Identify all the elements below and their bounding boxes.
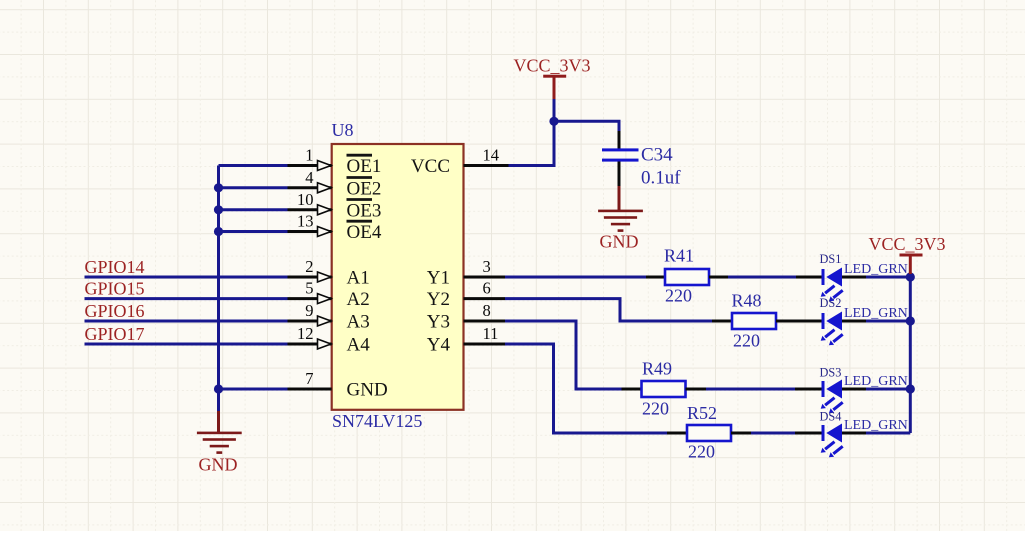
- resistor R52 body: [687, 425, 731, 441]
- ground symbol left stem: [217, 411, 220, 433]
- svg-text:GPIO17: GPIO17: [85, 324, 145, 344]
- power symbol VCC_3V3 right bar: [900, 254, 923, 257]
- junction bus pin13: [214, 227, 223, 236]
- wire GPIO17 to A4: [85, 343, 288, 346]
- resistor R52 right pin: [731, 432, 751, 435]
- svg-text:LED_GRN: LED_GRN: [844, 418, 908, 433]
- pin 5 A2: [288, 279, 370, 311]
- svg-text:DS4: DS4: [820, 410, 842, 424]
- svg-text:OE4: OE4: [347, 222, 382, 243]
- svg-text:VCC_3V3: VCC_3V3: [869, 234, 946, 254]
- svg-text:GND: GND: [600, 232, 639, 252]
- svg-text:220: 220: [665, 286, 692, 306]
- wire pin13 to bus: [219, 230, 288, 233]
- pin 11 Y4: [427, 324, 505, 356]
- junction bus pin10: [214, 205, 223, 214]
- wire DS2 to rail: [866, 320, 910, 323]
- wire Y3 to R49: [505, 321, 622, 389]
- LED DS4: [821, 424, 843, 458]
- svg-text:C34: C34: [641, 145, 673, 166]
- svg-text:11: 11: [483, 324, 499, 343]
- LED DS1: [821, 268, 843, 302]
- wire DS1 to rail: [866, 276, 910, 279]
- svg-text:Y3: Y3: [427, 312, 450, 333]
- wire VCC node to C34: [554, 121, 619, 133]
- pin 10 OE3: [288, 190, 382, 222]
- wire Y2 to R48: [505, 299, 712, 321]
- IC U8 body: [332, 144, 464, 410]
- resistor R41 right pin: [709, 276, 728, 279]
- svg-text:220: 220: [733, 331, 760, 351]
- svg-text:12: 12: [297, 324, 314, 343]
- wire pin4 to bus: [219, 186, 288, 189]
- power symbol VCC_3V3 right stem: [909, 255, 912, 274]
- pin 4 OE2: [288, 168, 382, 200]
- power symbol VCC_3V3 top bar: [543, 75, 566, 78]
- svg-text:LED_GRN: LED_GRN: [844, 262, 908, 277]
- pin 2 A1: [288, 257, 370, 289]
- svg-text:U8: U8: [332, 120, 354, 140]
- ground symbol left: [197, 432, 242, 454]
- svg-text:DS2: DS2: [820, 296, 842, 310]
- LED DS4 left pin: [795, 432, 822, 435]
- LED DS2: [821, 312, 843, 346]
- LED DS1 right pin: [842, 276, 866, 279]
- wire GPIO14 to A1: [85, 276, 288, 279]
- wire pin1 to bus: [219, 164, 288, 167]
- svg-text:1: 1: [305, 146, 313, 165]
- svg-text:2: 2: [305, 257, 313, 276]
- LED DS4 right pin: [842, 432, 866, 435]
- svg-text:GND: GND: [347, 380, 388, 401]
- resistor R41 body: [665, 269, 709, 285]
- svg-text:GPIO16: GPIO16: [85, 301, 145, 321]
- resistor R52 left pin: [667, 432, 687, 435]
- junction bus GND: [214, 384, 223, 393]
- wire R52 to DS4: [751, 432, 795, 435]
- svg-text:SN74LV125: SN74LV125: [332, 411, 422, 431]
- resistor R48 right pin: [776, 320, 796, 323]
- svg-text:LED_GRN: LED_GRN: [844, 374, 908, 389]
- svg-text:GPIO15: GPIO15: [85, 279, 145, 299]
- svg-text:GND: GND: [199, 455, 238, 475]
- svg-text:6: 6: [483, 279, 491, 298]
- wire Y4 to R52: [505, 344, 667, 433]
- svg-text:3: 3: [483, 257, 491, 276]
- svg-text:220: 220: [642, 399, 669, 419]
- pin 14 VCC: [411, 146, 509, 178]
- pin 1 OE1: [288, 146, 382, 178]
- pin 3 Y1: [427, 257, 505, 289]
- svg-text:9: 9: [305, 301, 313, 320]
- svg-text:VCC_3V3: VCC_3V3: [514, 56, 591, 76]
- ground symbol cap: [598, 210, 643, 232]
- LED DS2 left pin: [796, 320, 822, 323]
- pin 13 OE4: [288, 212, 382, 244]
- svg-text:4: 4: [305, 168, 313, 187]
- resistor R49 left pin: [622, 388, 642, 391]
- capacitor C34 top pin: [618, 131, 621, 149]
- svg-text:R52: R52: [687, 403, 717, 423]
- svg-text:Y1: Y1: [427, 268, 450, 289]
- svg-text:14: 14: [483, 146, 500, 165]
- resistor R49 body: [642, 381, 686, 397]
- svg-text:DS3: DS3: [820, 366, 842, 380]
- resistor R49 right pin: [686, 388, 707, 391]
- junction VCC node: [549, 117, 558, 126]
- svg-text:VCC: VCC: [411, 156, 450, 177]
- svg-text:GPIO14: GPIO14: [85, 257, 145, 277]
- capacitor C34 plates: [602, 148, 639, 161]
- power symbol VCC_3V3 top stem: [553, 76, 556, 99]
- LED DS1 left pin: [796, 276, 822, 279]
- LED DS3 left pin: [795, 388, 822, 391]
- svg-text:A3: A3: [347, 312, 370, 333]
- resistor R48 body: [732, 313, 776, 329]
- junction rail DS1: [906, 272, 915, 281]
- pin 8 Y3: [427, 301, 505, 333]
- wire VCC pin14 to power: [509, 99, 555, 166]
- capacitor C34 bottom pin: [618, 162, 621, 187]
- svg-text:OE2: OE2: [347, 178, 382, 199]
- wire VCC rail right: [909, 277, 912, 433]
- svg-text:R49: R49: [642, 359, 672, 379]
- wire Y1 to R41: [505, 276, 646, 279]
- junction bus pin4: [214, 183, 223, 192]
- resistor R41 left pin: [646, 276, 665, 279]
- junction rail DS3: [906, 384, 915, 393]
- svg-text:DS1: DS1: [820, 252, 842, 266]
- svg-text:8: 8: [483, 301, 491, 320]
- svg-text:R41: R41: [664, 246, 694, 266]
- svg-text:LED_GRN: LED_GRN: [844, 306, 908, 321]
- pin 12 A4: [288, 324, 371, 356]
- wire R49 to DS3: [706, 388, 795, 391]
- wire DS3 to rail: [866, 388, 910, 391]
- junction rail DS2: [906, 316, 915, 325]
- pin 6 Y2: [427, 279, 505, 311]
- LED DS3 right pin: [842, 388, 866, 391]
- wire GPIO15 to A2: [85, 297, 288, 300]
- wire OE bus vertical: [217, 166, 220, 412]
- svg-text:5: 5: [305, 279, 313, 298]
- svg-text:7: 7: [305, 369, 313, 388]
- wire GPIO16 to A3: [85, 320, 288, 323]
- resistor R48 left pin: [712, 320, 732, 323]
- LED DS3: [821, 380, 843, 414]
- wire DS4 to rail: [866, 432, 910, 435]
- pin 9 A3: [288, 301, 370, 333]
- svg-text:0.1uf: 0.1uf: [641, 168, 681, 189]
- svg-text:A4: A4: [347, 335, 371, 356]
- svg-text:OE3: OE3: [347, 200, 382, 221]
- svg-text:10: 10: [297, 190, 314, 209]
- wire GND pin7 to bus: [219, 388, 288, 391]
- svg-text:OE1: OE1: [347, 156, 382, 177]
- ground symbol cap stem: [618, 186, 621, 211]
- svg-text:Y2: Y2: [427, 289, 450, 310]
- svg-text:Y4: Y4: [427, 335, 451, 356]
- svg-text:R48: R48: [732, 291, 762, 311]
- wire R41 to DS1: [728, 276, 796, 279]
- svg-text:A1: A1: [347, 268, 370, 289]
- LED DS2 right pin: [842, 320, 866, 323]
- svg-text:13: 13: [297, 212, 314, 231]
- svg-text:A2: A2: [347, 289, 370, 310]
- pin 7 GND: [288, 369, 388, 401]
- wire pin10 to bus: [219, 208, 288, 211]
- svg-text:220: 220: [688, 442, 715, 462]
